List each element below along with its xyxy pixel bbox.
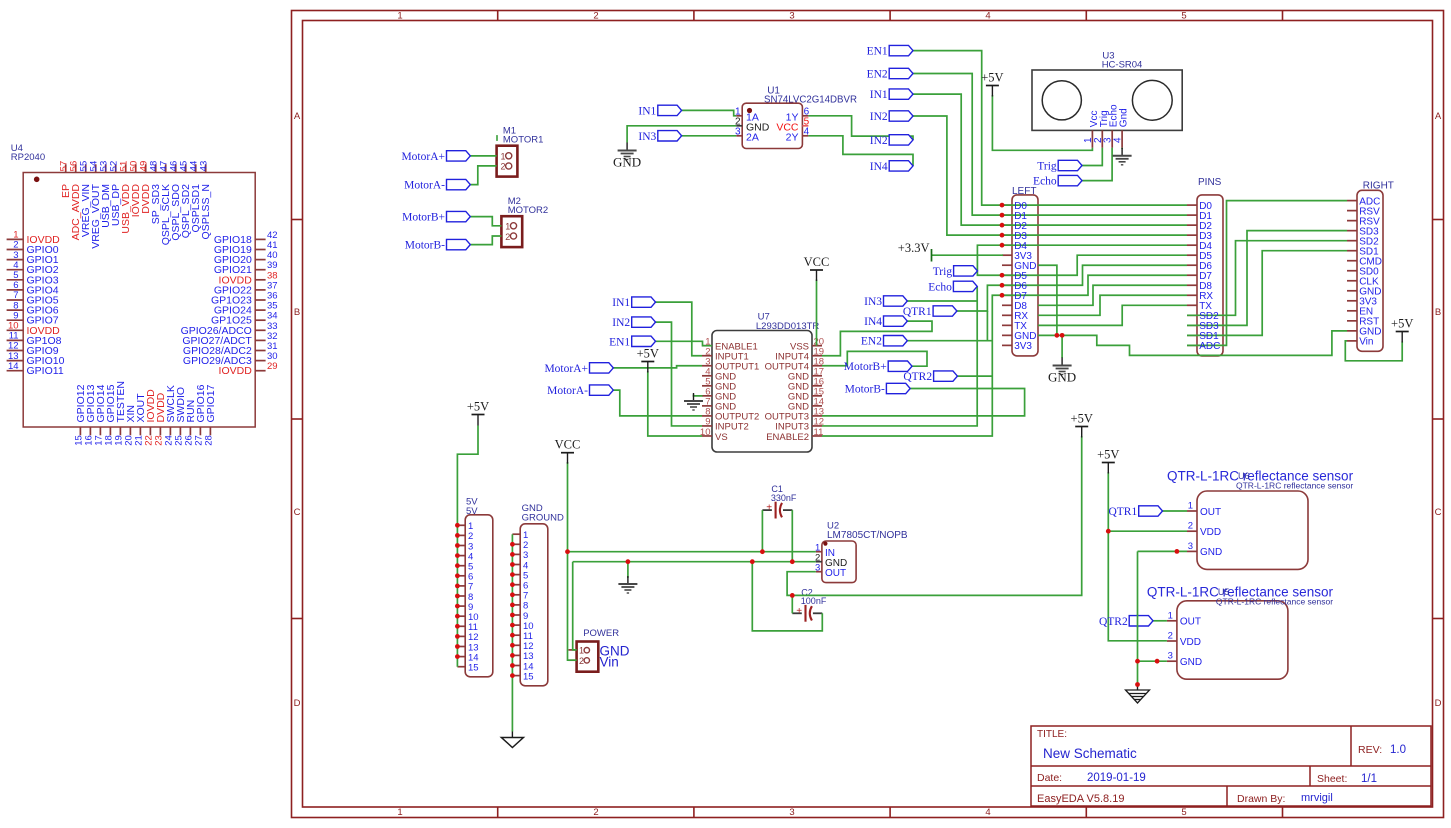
svg-text:29: 29 bbox=[267, 361, 278, 372]
svg-text:1: 1 bbox=[397, 807, 402, 818]
svg-text:100nF: 100nF bbox=[801, 596, 827, 606]
svg-text:2Y: 2Y bbox=[786, 131, 799, 143]
svg-text:VDD: VDD bbox=[1200, 527, 1221, 538]
svg-text:RP2040: RP2040 bbox=[11, 152, 45, 163]
net flag IN2 (U7) bbox=[632, 317, 656, 327]
svg-text:EN2: EN2 bbox=[867, 69, 888, 81]
svg-text:+5V: +5V bbox=[467, 400, 489, 414]
capacitor C1 bbox=[762, 484, 797, 518]
net flag Echo (U3) bbox=[1058, 175, 1082, 185]
net flag MotorA- (M1) bbox=[447, 179, 471, 189]
wire +5V to U3 Vcc bbox=[992, 95, 1092, 150]
wire IN1 to U1 1A bbox=[682, 110, 737, 115]
junction 5V pin2 bbox=[455, 533, 460, 538]
svg-text:QTR1: QTR1 bbox=[1108, 506, 1137, 518]
net flag QTR2 (sensor) bbox=[1129, 616, 1153, 626]
junction GND pin4 bbox=[510, 562, 515, 567]
svg-text:3: 3 bbox=[789, 807, 794, 818]
svg-text:Vin: Vin bbox=[1359, 337, 1373, 348]
svg-text:U6: U6 bbox=[1238, 471, 1250, 481]
svg-text:GND: GND bbox=[1180, 657, 1202, 668]
junction GND pin12 bbox=[510, 643, 515, 648]
wire +5V to VDD1 VDD2 bbox=[1108, 472, 1167, 641]
junction GND rail C1 bbox=[790, 559, 795, 564]
junction IN rail VCC bbox=[565, 549, 570, 554]
header 5V bbox=[457, 497, 492, 677]
junction GND pin8 bbox=[510, 603, 515, 608]
svg-text:Echo: Echo bbox=[928, 281, 952, 293]
svg-text:4: 4 bbox=[985, 807, 990, 818]
wire IN1 to INPUT1 bbox=[656, 302, 703, 356]
wire SD3 link bbox=[1187, 231, 1347, 326]
net flag IN2 (from 1Y) bbox=[889, 135, 913, 145]
junction D6 bbox=[1000, 283, 1005, 288]
junction GND a bbox=[1055, 333, 1060, 338]
svg-text:B: B bbox=[294, 307, 300, 318]
ground GND (QTR2) bbox=[1137, 685, 1139, 690]
junction 5V pin8 bbox=[455, 594, 460, 599]
svg-text:Echo: Echo bbox=[1033, 176, 1057, 188]
svg-text:IN4: IN4 bbox=[864, 316, 882, 328]
svg-text:Date:: Date: bbox=[1037, 772, 1062, 784]
net flag IN3 (U1 input) bbox=[658, 131, 682, 141]
sensor U5 QTR-L-1RC reflectance sensor bbox=[1147, 585, 1334, 680]
wire LEFT GND1 to GND2 bbox=[1038, 265, 1057, 335]
net flag QTR1 (U7) bbox=[933, 306, 957, 316]
svg-text:2: 2 bbox=[1188, 521, 1193, 532]
svg-text:IN4: IN4 bbox=[870, 161, 888, 173]
svg-text:C: C bbox=[294, 507, 301, 518]
svg-text:1: 1 bbox=[397, 11, 402, 22]
net flag IN4 (U7) bbox=[884, 316, 908, 326]
wire D4 Trig D5 net bbox=[977, 245, 1002, 275]
junction QTR2 GND b bbox=[1155, 659, 1160, 664]
junction QTR2 GND c bbox=[1135, 682, 1140, 687]
svg-text:GPIO11: GPIO11 bbox=[27, 365, 64, 377]
junction GND pin15 bbox=[510, 673, 515, 678]
junction 5V pin7 bbox=[455, 584, 460, 589]
svg-text:MOTOR1: MOTOR1 bbox=[503, 135, 543, 146]
svg-text:3: 3 bbox=[789, 11, 794, 22]
net flag IN1 (top) bbox=[889, 89, 913, 99]
wire EN2 to D1 bbox=[913, 74, 1002, 216]
svg-text:IN1: IN1 bbox=[870, 89, 888, 101]
wire OUT to +5V rail bbox=[787, 436, 1082, 595]
wire GND header chain bbox=[511, 534, 513, 731]
svg-text:EN2: EN2 bbox=[861, 336, 882, 348]
junction 5V pin4 bbox=[455, 553, 460, 558]
junction QTR2 GND a bbox=[1135, 659, 1140, 664]
junction 5V pin13 bbox=[455, 644, 460, 649]
wire IN2 to D3 bbox=[913, 116, 1002, 235]
wire 5V header chain bbox=[457, 426, 478, 667]
junction 5V pin10 bbox=[455, 614, 460, 619]
net flag Trig (LEFT) bbox=[954, 266, 978, 276]
svg-text:GND: GND bbox=[613, 155, 641, 170]
svg-text:D: D bbox=[1435, 698, 1442, 709]
wire IN3 join bbox=[907, 300, 977, 302]
net flag EN1 (U7) bbox=[632, 336, 656, 346]
junction GND pin2 bbox=[510, 542, 515, 547]
junction 5V pin1 bbox=[455, 523, 460, 528]
net flag MotorB- (M2) bbox=[447, 239, 471, 249]
svg-text:+: + bbox=[766, 503, 772, 514]
svg-text:15: 15 bbox=[468, 663, 479, 674]
wire +5V to VS bbox=[648, 371, 702, 436]
wire bus D7 bbox=[1002, 275, 1187, 295]
wire MotorA+ to M1 pin1 bbox=[470, 155, 496, 157]
svg-text:GND: GND bbox=[1048, 370, 1076, 385]
svg-text:VDD: VDD bbox=[1180, 637, 1201, 648]
svg-text:HC-SR04: HC-SR04 bbox=[1102, 60, 1143, 71]
junction GND pin13 bbox=[510, 653, 515, 658]
svg-text:OUT: OUT bbox=[1180, 617, 1201, 628]
svg-text:2A: 2A bbox=[746, 131, 759, 143]
header GND GROUND bbox=[512, 503, 564, 686]
wire VCC to POWER Vin bbox=[568, 552, 577, 661]
wire QTR1 to D6 bbox=[957, 285, 1002, 311]
svg-text:POWER: POWER bbox=[583, 628, 619, 639]
svg-text:GROUND: GROUND bbox=[522, 513, 564, 524]
junction GND rail C2 bbox=[750, 559, 755, 564]
svg-text:3V3: 3V3 bbox=[1014, 341, 1032, 352]
wire U1 1Y to IN2 flag bbox=[808, 116, 913, 140]
svg-text:IOVDD: IOVDD bbox=[219, 365, 253, 377]
wire QTR2 flag to OUT bbox=[1153, 620, 1167, 622]
capacitor C2 bbox=[792, 587, 827, 621]
wire MotorA- to M1 pin2 bbox=[470, 166, 496, 185]
svg-text:Sheet:: Sheet: bbox=[1317, 773, 1347, 785]
svg-text:QSPLSS_N: QSPLSS_N bbox=[200, 184, 212, 239]
junction IN rail C1 bbox=[760, 549, 765, 554]
net flag IN2 (top) bbox=[889, 111, 913, 121]
wire bus D8 bbox=[1038, 285, 1187, 305]
junction QTR1 GND bbox=[1175, 549, 1180, 554]
wire OUTPUT4 to MotorB+ bbox=[822, 351, 927, 366]
svg-text:5: 5 bbox=[1181, 807, 1186, 818]
junction GND rail earth bbox=[626, 559, 631, 564]
svg-text:1/1: 1/1 bbox=[1361, 773, 1377, 785]
svg-text:2: 2 bbox=[505, 232, 510, 242]
svg-text:IN3: IN3 bbox=[864, 296, 882, 308]
svg-text:14: 14 bbox=[8, 361, 19, 372]
wire U3 Gnd to ground bbox=[1121, 148, 1123, 149]
svg-text:REV:: REV: bbox=[1358, 744, 1382, 756]
svg-text:ADC: ADC bbox=[1199, 341, 1220, 352]
ic U7 L293DD013TR bbox=[700, 312, 824, 453]
svg-text:2: 2 bbox=[593, 11, 598, 22]
net flag QTR2 (U7) bbox=[934, 371, 958, 381]
svg-text:1: 1 bbox=[579, 646, 584, 656]
svg-text:MotorA-: MotorA- bbox=[404, 180, 445, 192]
svg-text:C: C bbox=[1435, 507, 1442, 518]
svg-text:QTR2: QTR2 bbox=[1099, 616, 1128, 628]
wire U3 Trig to flag bbox=[1082, 148, 1102, 166]
svg-text:28: 28 bbox=[203, 435, 214, 446]
wire GND rail to POWER GND bbox=[573, 562, 577, 650]
wire U1 GND to ground bbox=[627, 126, 736, 143]
svg-text:VS: VS bbox=[715, 432, 728, 443]
svg-text:3: 3 bbox=[1188, 541, 1193, 552]
ground GND rail (U2) bbox=[627, 576, 629, 584]
junction GND pin5 bbox=[510, 572, 515, 577]
net flag IN4 (from 2Y) bbox=[889, 161, 913, 171]
svg-text:mrvigil: mrvigil bbox=[1301, 792, 1333, 804]
svg-text:3: 3 bbox=[1168, 651, 1173, 662]
net flag MotorA+ (U7) bbox=[590, 363, 614, 373]
net flag EN2 (top) bbox=[889, 68, 913, 78]
junction 5V pin12 bbox=[455, 634, 460, 639]
svg-text:OUT: OUT bbox=[825, 568, 846, 579]
net flag IN3 (U7) bbox=[884, 296, 908, 306]
svg-text:MotorB-: MotorB- bbox=[405, 240, 445, 252]
net flag Trig (U3) bbox=[1058, 160, 1082, 170]
svg-text:New Schematic: New Schematic bbox=[1043, 746, 1137, 761]
sensor U6 QTR-L-1RC reflectance sensor bbox=[1167, 469, 1354, 570]
svg-text:Trig: Trig bbox=[1037, 161, 1057, 173]
junction 5V pin6 bbox=[455, 573, 460, 578]
svg-text:IN2: IN2 bbox=[870, 135, 888, 147]
svg-text:TITLE:: TITLE: bbox=[1037, 729, 1067, 740]
junction D3 bbox=[1000, 233, 1005, 238]
wire bus D6 bbox=[1002, 265, 1187, 285]
wire IN3 to U1 2A bbox=[682, 135, 737, 137]
wire U7 GND to ground bbox=[694, 395, 703, 396]
net flag MotorB- (U7) bbox=[886, 383, 910, 393]
svg-text:IN2: IN2 bbox=[870, 111, 888, 123]
svg-text:+5V: +5V bbox=[1097, 448, 1119, 462]
wire LEFT GND to ground bbox=[1061, 335, 1063, 358]
connector M2 MOTOR2 bbox=[501, 196, 548, 247]
svg-text:4: 4 bbox=[985, 11, 990, 22]
wire bus D4 bbox=[1002, 244, 1187, 246]
svg-text:MotorB+: MotorB+ bbox=[402, 212, 445, 224]
junction VDD1 bbox=[1106, 529, 1111, 534]
wire GND rail to ground bbox=[627, 562, 629, 578]
svg-text:1: 1 bbox=[501, 152, 506, 162]
wire OUTPUT3 to MotorB- bbox=[822, 389, 1025, 416]
regulator U2 LM7805CT/NOPB bbox=[815, 521, 908, 583]
svg-text:1.0: 1.0 bbox=[1390, 744, 1406, 756]
wire bus RX bbox=[1038, 295, 1187, 315]
wire U1 2Y to IN4 flag bbox=[808, 136, 913, 166]
svg-text:2: 2 bbox=[1168, 631, 1173, 642]
net flag MotorB+ (M2) bbox=[447, 211, 471, 221]
wire C1 right to GND bbox=[791, 510, 793, 562]
wire QTR1 GND down overlay bbox=[1137, 615, 1139, 628]
net flag MotorA+ (M1) bbox=[447, 151, 471, 161]
wire QTR1 vert join EN2 bbox=[986, 311, 988, 341]
svg-text:+5V: +5V bbox=[1071, 412, 1093, 426]
wire C2 right to GND loop bbox=[752, 562, 822, 631]
svg-text:MOTOR2: MOTOR2 bbox=[508, 205, 548, 216]
wire QTR1 GND down bbox=[1137, 551, 1139, 661]
svg-text:VCC: VCC bbox=[804, 255, 830, 269]
svg-text:+5V: +5V bbox=[981, 71, 1003, 85]
svg-text:GPIO17: GPIO17 bbox=[205, 384, 217, 422]
svg-text:15: 15 bbox=[523, 671, 534, 682]
wire bus D5 bbox=[1002, 255, 1187, 275]
wire bus TX bbox=[1038, 305, 1187, 325]
svg-text:Trig: Trig bbox=[933, 266, 953, 278]
wire IN rail bbox=[568, 551, 816, 553]
wire +3.3V to LEFT 3V3 bbox=[932, 254, 1004, 256]
svg-text:43: 43 bbox=[199, 161, 210, 172]
wire D7 to ENABLE2 bbox=[822, 295, 1002, 436]
wire GND rail bbox=[573, 561, 816, 563]
svg-text:MotorB+: MotorB+ bbox=[844, 361, 887, 373]
svg-text:MotorB-: MotorB- bbox=[845, 384, 885, 396]
svg-text:1: 1 bbox=[1168, 610, 1173, 621]
junction 5V pin5 bbox=[455, 563, 460, 568]
junction D5 bbox=[1000, 273, 1005, 278]
header RIGHT bbox=[1347, 181, 1394, 352]
svg-text:EasyEDA V5.8.19: EasyEDA V5.8.19 bbox=[1037, 793, 1124, 805]
svg-text:IN1: IN1 bbox=[638, 105, 656, 117]
svg-text:A: A bbox=[1435, 111, 1442, 122]
header PINS bbox=[1187, 177, 1223, 356]
net flag QTR1 (sensor) bbox=[1139, 506, 1163, 516]
svg-text:+5V: +5V bbox=[637, 347, 659, 361]
svg-text:+: + bbox=[796, 606, 802, 617]
net flag EN2 (U7) bbox=[884, 336, 908, 346]
junction D4 bbox=[1000, 243, 1005, 248]
wire IN1 to D2 bbox=[913, 94, 1002, 225]
connector M1 MOTOR1 bbox=[497, 126, 544, 177]
svg-text:MotorA-: MotorA- bbox=[547, 385, 588, 397]
wire bus D3 bbox=[1002, 234, 1187, 236]
svg-text:MotorA+: MotorA+ bbox=[401, 151, 445, 163]
svg-text:VCC: VCC bbox=[555, 438, 581, 452]
svg-text:QTR1: QTR1 bbox=[903, 306, 932, 318]
svg-text:+5V: +5V bbox=[1391, 317, 1413, 331]
svg-text:2: 2 bbox=[501, 162, 506, 172]
svg-text:PINS: PINS bbox=[1198, 177, 1222, 188]
svg-text:GND: GND bbox=[1200, 547, 1222, 558]
wire VCC to VSS bbox=[816, 280, 818, 346]
wire QTR2 GND bbox=[1138, 660, 1167, 662]
junction GND pin7 bbox=[510, 592, 515, 597]
svg-text:2: 2 bbox=[579, 656, 584, 666]
ic U1 SN74LVC2G14DBVR bbox=[735, 86, 857, 149]
net flag MotorA- (U7) bbox=[590, 385, 614, 395]
junction D0 bbox=[1000, 203, 1005, 208]
junction GND pin3 bbox=[510, 552, 515, 557]
svg-text:EN1: EN1 bbox=[609, 336, 630, 348]
junction GND pin14 bbox=[510, 663, 515, 668]
svg-text:IN3: IN3 bbox=[638, 131, 656, 143]
wire QTR2 GND to ground bbox=[1137, 661, 1139, 685]
svg-text:QTR-L-1RC reflectance sensor: QTR-L-1RC reflectance sensor bbox=[1236, 481, 1353, 491]
wire bus D2 bbox=[1002, 224, 1187, 226]
wire C1 left to IN bbox=[761, 510, 763, 552]
wire Vin to +5V bbox=[1345, 341, 1402, 361]
net flag EN1 (top) bbox=[889, 45, 913, 55]
sensor U3 HC-SR04 bbox=[1032, 51, 1182, 148]
wire Echo IN3 to INPUT3 bbox=[822, 286, 977, 426]
wire VDD1 tap bbox=[1108, 530, 1187, 532]
svg-text:2: 2 bbox=[593, 807, 598, 818]
net flag Echo (LEFT) bbox=[953, 281, 977, 291]
wire ADC link bbox=[1187, 201, 1347, 346]
wire MotorB- to M2 pin2 bbox=[470, 236, 501, 245]
junction GND pin9 bbox=[510, 613, 515, 618]
wire MotorA- to OUTPUT2 bbox=[613, 390, 702, 416]
ground GND (GND header) bbox=[511, 732, 513, 738]
svg-text:A: A bbox=[294, 111, 301, 122]
wire SD2 link bbox=[1187, 241, 1347, 316]
svg-text:Gnd: Gnd bbox=[1119, 108, 1130, 127]
svg-text:11: 11 bbox=[814, 427, 824, 438]
svg-text:B: B bbox=[1435, 307, 1441, 318]
svg-text:Vin: Vin bbox=[600, 655, 619, 670]
ground GND (U1) bbox=[626, 143, 628, 151]
junction 5V pin9 bbox=[455, 604, 460, 609]
svg-text:OUT: OUT bbox=[1200, 507, 1221, 518]
svg-text:D: D bbox=[294, 698, 301, 709]
svg-text:IN1: IN1 bbox=[612, 297, 630, 309]
wire QTR1 GND bbox=[1138, 550, 1188, 552]
wire IN2 to INPUT2 bbox=[656, 322, 703, 426]
svg-text:QTR-L-1RC reflectance sensor: QTR-L-1RC reflectance sensor bbox=[1216, 597, 1333, 607]
svg-text:Drawn By:: Drawn By: bbox=[1237, 793, 1285, 805]
ground GND (U3) bbox=[1121, 148, 1123, 156]
junction D2 bbox=[1000, 223, 1005, 228]
svg-text:MotorA+: MotorA+ bbox=[544, 363, 588, 375]
junction D7 bbox=[1000, 293, 1005, 298]
wire MotorB+ to M2 pin1 bbox=[470, 217, 501, 226]
junction 5V pin3 bbox=[455, 543, 460, 548]
junction +5V C2 bbox=[790, 593, 795, 598]
svg-text:IN2: IN2 bbox=[612, 317, 630, 329]
svg-text:5: 5 bbox=[1181, 11, 1186, 22]
svg-text:U5: U5 bbox=[1218, 587, 1230, 597]
junction GND pin10 bbox=[510, 623, 515, 628]
wire EN1 to D0 bbox=[913, 51, 1002, 206]
junction D1 bbox=[1000, 213, 1005, 218]
wire U3 Echo to flag bbox=[1082, 148, 1112, 181]
wire EN1 to ENABLE1 bbox=[656, 341, 713, 345]
svg-text:2019-01-19: 2019-01-19 bbox=[1087, 772, 1146, 784]
wire SD1 link bbox=[1187, 251, 1347, 336]
ground GND (U7) bbox=[693, 393, 695, 401]
svg-text:EN1: EN1 bbox=[867, 46, 888, 58]
wire QTR1 flag to OUT bbox=[1163, 510, 1188, 512]
connector POWER bbox=[569, 628, 630, 672]
svg-text:1: 1 bbox=[1188, 501, 1193, 512]
net flag MotorB+ (U7) bbox=[888, 361, 912, 371]
junction GND pin6 bbox=[510, 582, 515, 587]
mcu U4 RP2040 bbox=[7, 143, 278, 446]
wire EN2 run bbox=[907, 340, 992, 342]
svg-text:+3.3V: +3.3V bbox=[898, 241, 930, 255]
wire MotorA+ to OUTPUT1 bbox=[613, 366, 702, 368]
svg-text:330nF: 330nF bbox=[771, 493, 797, 503]
ground GND (LEFT header) bbox=[1061, 358, 1063, 366]
svg-text:QTR2: QTR2 bbox=[903, 371, 932, 383]
wire bus D0 bbox=[1002, 204, 1187, 206]
net flag IN1 (U1 input) bbox=[658, 105, 682, 115]
wire LEFT GND run to RIGHT GND bbox=[1038, 331, 1347, 356]
junction 5V pin14 bbox=[455, 654, 460, 659]
wire bus D1 bbox=[1002, 214, 1187, 216]
header LEFT bbox=[1002, 186, 1038, 356]
wire INPUT4 to IN4 bbox=[822, 321, 932, 356]
svg-text:4: 4 bbox=[1113, 137, 1124, 143]
net flag IN1 (U7) bbox=[632, 297, 656, 307]
wire VCC to IN rail bbox=[567, 462, 569, 552]
wire C2 left to +5V rail bbox=[791, 595, 793, 613]
